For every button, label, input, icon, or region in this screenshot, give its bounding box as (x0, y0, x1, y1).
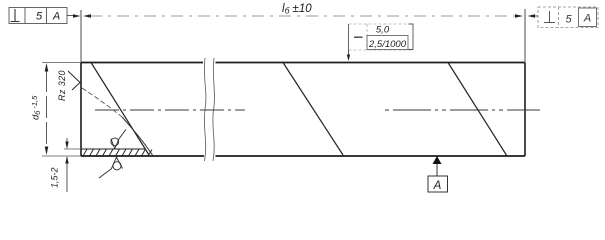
length extension line left (80, 10, 82, 62)
straightness frame right bracket (409, 24, 414, 50)
extension line top-left for diameter (42, 62, 81, 64)
roughness symbol Rz 320 on end face (68, 71, 80, 90)
perpendicularity symbol right frame (544, 11, 555, 23)
extension line bottom-left for diameter (42, 155, 81, 157)
perpendicularity symbol left frame (11, 9, 20, 22)
datum A triangle (433, 156, 442, 164)
texture diagonal D2 (283, 63, 343, 156)
straightness per-length box (367, 36, 408, 50)
bar top edge (81, 62, 525, 64)
straightness frame left border (348, 24, 350, 50)
bar left end face (80, 63, 82, 157)
defect layer thickness upper arrow (66, 138, 68, 148)
bar right end face (524, 63, 526, 157)
diameter dimension line d (46, 70, 48, 148)
svg-text:5: 5 (36, 11, 43, 23)
length dimension arrow right (515, 14, 523, 18)
svg-text:5: 5 (565, 14, 572, 26)
defect layer hatched band top line (81, 148, 146, 150)
defect layer hatching (83, 149, 152, 156)
svg-text:5,0: 5,0 (376, 25, 390, 36)
left frame leader (67, 15, 73, 17)
axis centerline right part (385, 109, 540, 111)
break line left (204, 58, 206, 161)
defect layer boundary curve solid part (122, 117, 153, 156)
right tolerance frame (538, 7, 598, 28)
straightness frame leader (348, 50, 350, 56)
datum A stem (436, 164, 438, 176)
right frame leader (534, 15, 538, 17)
svg-text:A: A (52, 11, 60, 23)
left tolerance frame (9, 8, 67, 24)
extension line band top left (64, 148, 81, 150)
no-machining symbol above band (111, 129, 126, 148)
length dimension arrow left (83, 14, 91, 18)
straightness frame box (349, 24, 414, 50)
diameter dimension arrow down (45, 147, 49, 156)
datum A box (428, 176, 448, 192)
straightness symbol (354, 36, 363, 38)
length extension line right (524, 9, 526, 62)
texture diagonal D3 (448, 63, 507, 157)
svg-text:A: A (433, 180, 442, 192)
svg-text:1,5-2: 1,5-2 (50, 167, 60, 188)
length dimension line (90, 15, 516, 17)
defect layer boundary curve dashed part (82, 88, 122, 117)
break line right (213, 58, 215, 161)
texture diagonal D1 (91, 63, 149, 156)
diameter dimension arrow up (45, 63, 49, 72)
svg-text:Rz 320: Rz 320 (57, 70, 67, 101)
svg-text:2,5/1000: 2,5/1000 (368, 39, 407, 50)
no-machining symbol below band (99, 157, 123, 178)
svg-text:A: A (583, 13, 591, 25)
axis centerline (95, 109, 245, 111)
svg-text:lб ±10: lб ±10 (282, 3, 312, 16)
bar bottom edge (81, 155, 525, 157)
defect layer thickness lower arrow (66, 157, 68, 192)
